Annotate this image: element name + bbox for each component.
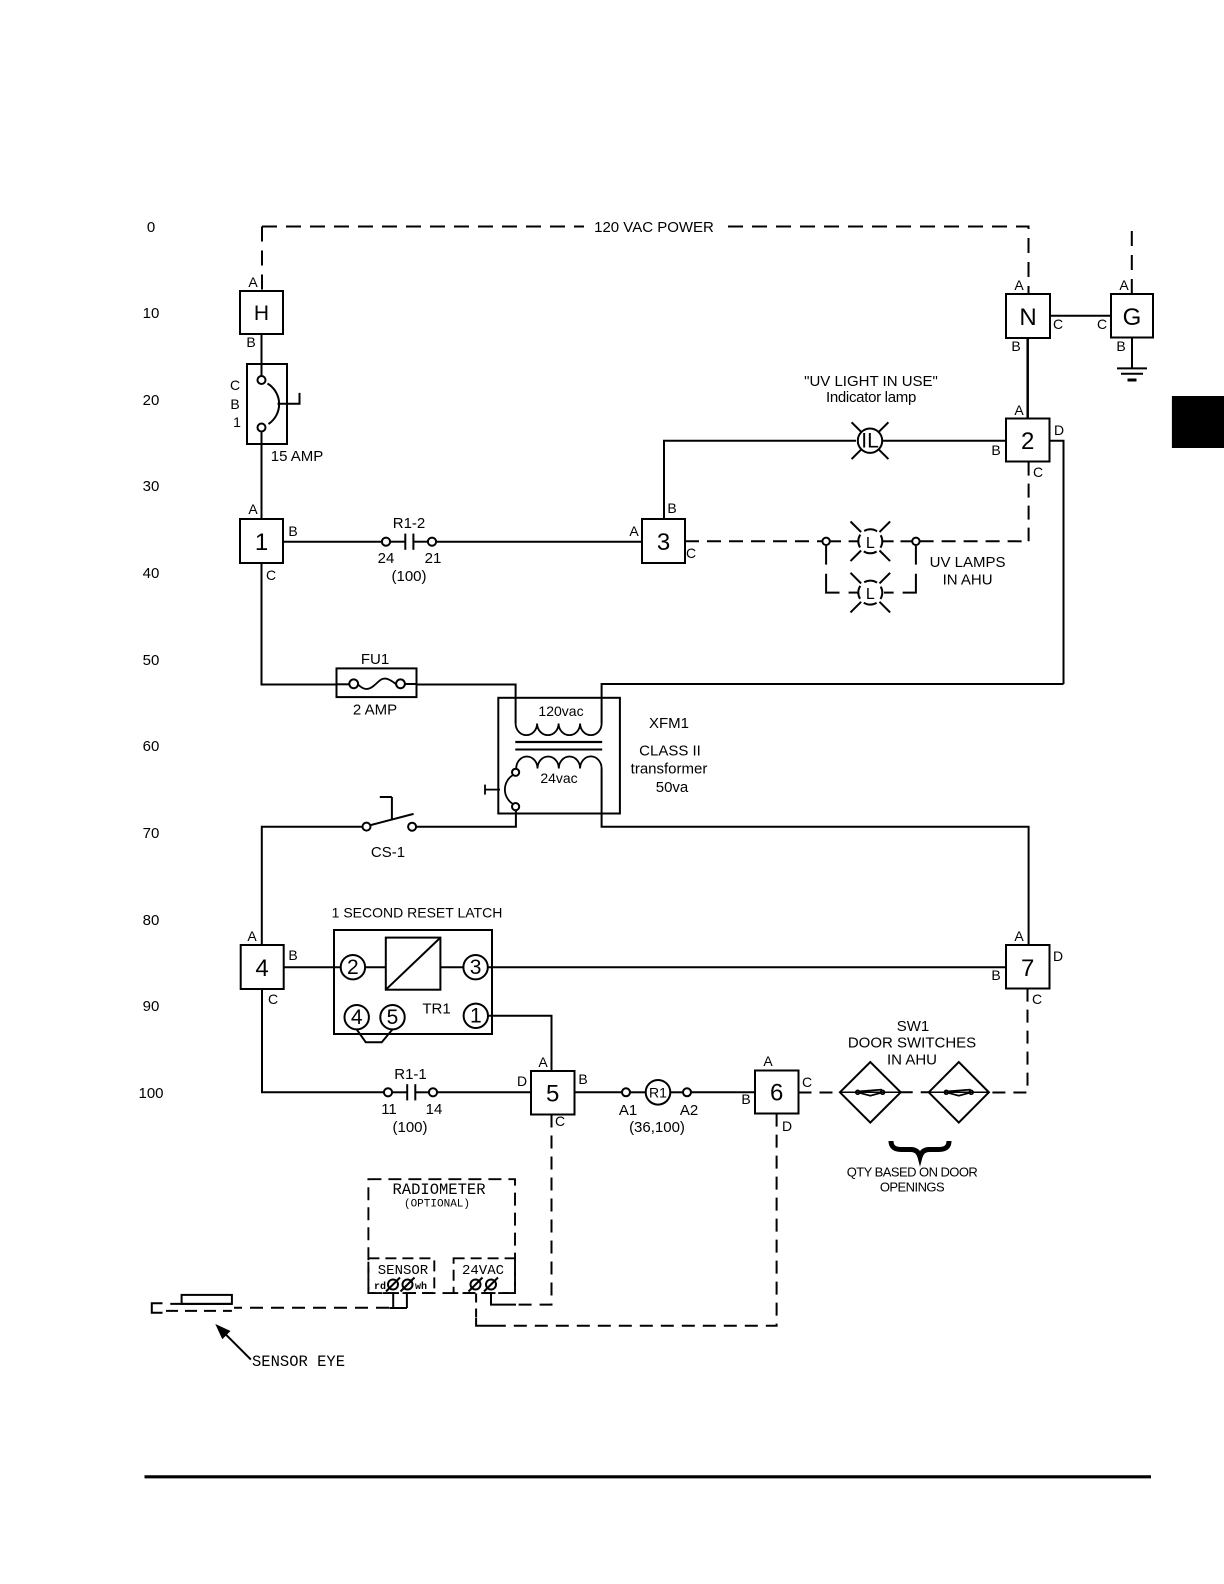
svg-text:IN AHU: IN AHU bbox=[887, 1052, 937, 1069]
svg-text:4: 4 bbox=[351, 1006, 363, 1029]
wire IL to box 2 bbox=[882, 440, 1006, 442]
wire secondary left lead down to CS-1 row bbox=[417, 810, 516, 827]
svg-text:IL: IL bbox=[861, 430, 879, 453]
svg-text:N: N bbox=[1019, 304, 1036, 331]
svg-text:TR1: TR1 bbox=[422, 1001, 450, 1018]
node sensor terminal screws bbox=[386, 1278, 415, 1292]
svg-text:A: A bbox=[1119, 277, 1129, 293]
svg-text:C: C bbox=[1053, 316, 1063, 332]
svg-text:D: D bbox=[782, 1118, 792, 1134]
wire box5 C solid elbow to 24vac terminal bbox=[491, 1294, 516, 1305]
wire box6 C dashed to door switch bbox=[799, 1092, 840, 1094]
svg-text:C: C bbox=[230, 377, 240, 393]
svg-text:QTY BASED ON DOOR: QTY BASED ON DOOR bbox=[847, 1165, 978, 1180]
ground symbol bbox=[1117, 368, 1147, 380]
svg-text:B: B bbox=[991, 442, 1000, 458]
svg-text:C: C bbox=[686, 545, 696, 561]
wire pin2 to square bbox=[365, 966, 386, 968]
relay coil R1 bbox=[622, 1080, 691, 1105]
wire dashed stub above G bbox=[1131, 229, 1133, 294]
svg-text:3: 3 bbox=[657, 529, 670, 556]
connector G bbox=[1111, 294, 1153, 338]
svg-text:B: B bbox=[1116, 338, 1125, 354]
svg-text:A: A bbox=[1014, 277, 1024, 293]
lamp L lower UV lamp (dashed) bbox=[851, 573, 891, 613]
svg-text:"UV LIGHT IN USE": "UV LIGHT IN USE" bbox=[804, 373, 938, 390]
svg-text:3: 3 bbox=[470, 956, 482, 979]
svg-text:C: C bbox=[1032, 991, 1042, 1007]
circuit breaker CB1 bbox=[247, 364, 300, 444]
wire N to G bbox=[1050, 315, 1111, 317]
svg-text:D: D bbox=[517, 1073, 527, 1089]
svg-text:A: A bbox=[248, 274, 258, 290]
node XFM1 label bbox=[631, 715, 708, 796]
connector 4 bbox=[241, 945, 284, 989]
node SENSOR terminal strip bbox=[368, 1258, 434, 1293]
lamp L upper UV lamp (dashed) bbox=[830, 522, 912, 562]
wire box5 C dashed drop bbox=[516, 1115, 552, 1305]
node latch pin 5 bbox=[380, 1005, 404, 1029]
wire box4 B to pin2 bbox=[284, 966, 341, 968]
svg-text:70: 70 bbox=[143, 825, 160, 842]
node latch pin 3 bbox=[463, 955, 487, 979]
radiometer outer dashed box bbox=[368, 1179, 515, 1293]
connector 6 bbox=[755, 1071, 799, 1114]
wire door switch to box7 C dashed bbox=[989, 989, 1028, 1093]
svg-text:5: 5 bbox=[387, 1006, 399, 1029]
node 24VAC terminal strip bbox=[454, 1258, 515, 1293]
node lamp terminal right bbox=[912, 538, 919, 545]
svg-text:20: 20 bbox=[143, 392, 160, 409]
svg-text:B: B bbox=[578, 1071, 587, 1087]
wire 120 VAC POWER top dashed rail bbox=[262, 227, 1029, 295]
svg-text:XFM1: XFM1 bbox=[649, 715, 689, 732]
wire box6 D solid elbow to 24vac terminal bbox=[476, 1318, 497, 1326]
svg-text:120 VAC POWER: 120 VAC POWER bbox=[594, 219, 714, 236]
svg-text:(OPTIONAL): (OPTIONAL) bbox=[404, 1199, 470, 1211]
svg-text:CS-1: CS-1 bbox=[371, 844, 405, 861]
wire CB1 to box 1 bbox=[261, 432, 263, 520]
svg-text:11: 11 bbox=[381, 1101, 397, 1118]
connector H bbox=[240, 291, 283, 334]
node 24vac terminal screws bbox=[469, 1278, 499, 1292]
wire box2 D to transformer primary right bbox=[1050, 441, 1064, 684]
wire lamp branch right drop bbox=[884, 546, 916, 593]
svg-text:A1: A1 bbox=[619, 1102, 637, 1119]
svg-text:(100): (100) bbox=[391, 568, 426, 585]
svg-text:B: B bbox=[288, 947, 297, 963]
svg-text:2 AMP: 2 AMP bbox=[353, 702, 397, 719]
svg-text:G: G bbox=[1123, 304, 1142, 331]
node UV LIGHT IN USE label bbox=[804, 373, 938, 406]
svg-text:IN AHU: IN AHU bbox=[943, 572, 993, 589]
wire CS-1 to left rail down to box4 bbox=[262, 827, 363, 945]
svg-text:6: 6 bbox=[770, 1080, 783, 1107]
svg-text:OPENINGS: OPENINGS bbox=[880, 1180, 945, 1195]
svg-text:B: B bbox=[246, 334, 255, 350]
node CB1 label bbox=[230, 377, 241, 430]
svg-text:L: L bbox=[866, 586, 875, 603]
svg-text:(36,100): (36,100) bbox=[629, 1119, 685, 1136]
svg-text:(100): (100) bbox=[392, 1119, 427, 1136]
svg-text:C: C bbox=[1097, 316, 1107, 332]
contact R1-2 bbox=[382, 534, 436, 550]
svg-text:A: A bbox=[1014, 928, 1024, 944]
svg-text:50va: 50va bbox=[656, 779, 689, 796]
switch SW1 door switch 2 bbox=[929, 1062, 989, 1123]
svg-text:10: 10 bbox=[143, 305, 160, 322]
node switch contact dots bbox=[881, 1090, 885, 1094]
svg-text:30: 30 bbox=[143, 478, 160, 495]
svg-text:rd: rd bbox=[374, 1281, 386, 1293]
wire box5 B to relay coil R1 bbox=[575, 1091, 623, 1093]
svg-text:60: 60 bbox=[143, 738, 160, 755]
node brace bbox=[891, 1141, 949, 1157]
svg-text:4: 4 bbox=[255, 955, 268, 982]
svg-text:50: 50 bbox=[143, 652, 160, 669]
svg-text:B: B bbox=[667, 500, 676, 516]
connector secondary plug bbox=[485, 769, 519, 811]
connector 2 bbox=[1006, 419, 1050, 462]
switch SW1 door switch 1 bbox=[840, 1062, 901, 1123]
wire fuse to transformer primary bbox=[417, 685, 516, 724]
wire G to ground bbox=[1131, 338, 1133, 369]
wire sensor connector bbox=[389, 1293, 407, 1308]
svg-text:FU1: FU1 bbox=[361, 651, 389, 668]
svg-text:SENSOR EYE: SENSOR EYE bbox=[252, 1353, 345, 1371]
svg-text:1: 1 bbox=[233, 414, 241, 430]
wire pin1 to box5 A bbox=[488, 1016, 552, 1071]
svg-text:24vac: 24vac bbox=[540, 770, 577, 786]
svg-text:5: 5 bbox=[546, 1081, 559, 1108]
svg-text:SENSOR: SENSOR bbox=[378, 1263, 429, 1279]
svg-text:7: 7 bbox=[1021, 955, 1034, 982]
svg-text:wh: wh bbox=[415, 1281, 427, 1293]
svg-text:A: A bbox=[1014, 402, 1024, 418]
node UV LAMPS IN AHU label bbox=[930, 554, 1006, 589]
svg-text:1: 1 bbox=[255, 529, 268, 556]
wire H to CB1 bbox=[261, 334, 263, 376]
node SW1 label bbox=[848, 1018, 976, 1069]
svg-text:D: D bbox=[1053, 948, 1063, 964]
svg-text:R1: R1 bbox=[649, 1084, 667, 1100]
wire pin 4-5 jumper bbox=[357, 1029, 393, 1042]
svg-text:C: C bbox=[802, 1074, 812, 1090]
svg-text:R1-1: R1-1 bbox=[394, 1066, 427, 1083]
svg-text:120vac: 120vac bbox=[538, 703, 583, 719]
sensor eye bbox=[152, 1295, 232, 1313]
wire secondary right lead to right rail bbox=[602, 769, 1029, 946]
connector 7 bbox=[1006, 945, 1050, 989]
connector 1 bbox=[240, 519, 283, 563]
lamp IL indicator bbox=[852, 422, 889, 459]
connector 5 bbox=[531, 1071, 575, 1115]
svg-text:A: A bbox=[763, 1053, 773, 1069]
wire box4 C down to row 100 bbox=[262, 989, 384, 1092]
svg-text:24: 24 bbox=[378, 550, 395, 567]
wire box3 C dashed to lamp terminal bbox=[685, 540, 822, 542]
connector 3 bbox=[642, 519, 685, 563]
fuse FU1 bbox=[337, 668, 417, 697]
svg-text:A: A bbox=[629, 523, 639, 539]
svg-text:90: 90 bbox=[143, 998, 160, 1015]
wire between door switches bbox=[901, 1091, 929, 1093]
svg-text:C: C bbox=[266, 567, 276, 583]
svg-text:21: 21 bbox=[425, 550, 442, 567]
node latch pin 1 bbox=[464, 1004, 488, 1028]
node latch pin 2 bbox=[341, 955, 365, 979]
wire box2 C dashed down to UV lamp row bbox=[1028, 462, 1030, 542]
wire R1-1 to box5 D bbox=[437, 1091, 531, 1093]
svg-text:2: 2 bbox=[347, 956, 359, 979]
svg-text:RADIOMETER: RADIOMETER bbox=[392, 1181, 485, 1199]
wire N to box2 A bbox=[1026, 338, 1029, 419]
svg-text:C: C bbox=[1033, 464, 1043, 480]
svg-text:D: D bbox=[1054, 422, 1064, 438]
node QTY BASED ON DOOR OPENINGS label bbox=[847, 1165, 978, 1195]
node lamp terminal left bbox=[822, 538, 829, 545]
wire pin3 to box7 B bbox=[488, 966, 1006, 968]
svg-text:L: L bbox=[866, 535, 875, 552]
connector N bbox=[1006, 294, 1050, 338]
svg-text:1 SECOND RESET LATCH: 1 SECOND RESET LATCH bbox=[332, 905, 503, 921]
svg-text:A: A bbox=[538, 1054, 548, 1070]
wire lamp branch left drop bbox=[826, 546, 858, 593]
wire coil to box6 B bbox=[691, 1091, 755, 1093]
contact R1-1 bbox=[384, 1084, 437, 1100]
wire sensor eye dashed bbox=[234, 1307, 389, 1309]
wire box3 B up to indicator lamp row bbox=[664, 441, 856, 519]
svg-text:A2: A2 bbox=[680, 1102, 698, 1119]
svg-text:A: A bbox=[247, 928, 257, 944]
svg-text:0: 0 bbox=[147, 219, 155, 236]
svg-text:100: 100 bbox=[138, 1085, 163, 1102]
node latch pin 4 bbox=[345, 1005, 369, 1029]
wire square to pin3 bbox=[440, 966, 463, 968]
svg-text:24VAC: 24VAC bbox=[462, 1263, 504, 1279]
footer rule bbox=[145, 1475, 1152, 1478]
switch CS-1 bbox=[363, 797, 417, 831]
svg-text:40: 40 bbox=[143, 565, 160, 582]
svg-text:R1-2: R1-2 bbox=[393, 515, 426, 532]
svg-text:B: B bbox=[991, 967, 1000, 983]
primary coil 120vac bbox=[516, 724, 602, 736]
svg-text:SW1: SW1 bbox=[897, 1018, 930, 1035]
node black tab marker bbox=[1172, 396, 1224, 448]
svg-text:14: 14 bbox=[426, 1101, 443, 1118]
wire R1-2 to box 3 bbox=[436, 541, 642, 543]
secondary coil 24vac bbox=[516, 756, 601, 768]
transformer XFM1 bbox=[498, 698, 620, 814]
wire transformer primary right to box2 D bbox=[602, 684, 1064, 724]
svg-text:UV LAMPS: UV LAMPS bbox=[930, 554, 1006, 571]
core lines bbox=[515, 741, 602, 743]
svg-text:15 AMP: 15 AMP bbox=[271, 448, 324, 465]
wire 24vac left terminal elbow bbox=[475, 1294, 477, 1319]
svg-text:2: 2 bbox=[1021, 428, 1034, 455]
node line numbers column bbox=[138, 219, 163, 1102]
svg-text:Indicator lamp: Indicator lamp bbox=[826, 389, 916, 406]
svg-text:C: C bbox=[555, 1113, 565, 1129]
svg-text:1: 1 bbox=[470, 1005, 482, 1028]
svg-text:80: 80 bbox=[143, 912, 160, 929]
svg-text:B: B bbox=[1011, 338, 1020, 354]
wire lamp terminal to box2 C net bbox=[920, 540, 1029, 542]
svg-text:H: H bbox=[254, 302, 269, 325]
svg-text:B: B bbox=[288, 523, 297, 539]
wire box1 C down to fuse row bbox=[262, 563, 337, 685]
svg-text:A: A bbox=[248, 501, 258, 517]
svg-text:CLASS II: CLASS II bbox=[639, 743, 701, 760]
svg-text:transformer: transformer bbox=[631, 761, 708, 778]
latch TR1 module box bbox=[334, 930, 492, 1034]
svg-text:C: C bbox=[268, 991, 278, 1007]
svg-text:DOOR SWITCHES: DOOR SWITCHES bbox=[848, 1035, 976, 1052]
svg-text:B: B bbox=[741, 1091, 750, 1107]
wire box1 B to contact R1-2 bbox=[283, 541, 382, 543]
wire box6 D dashed drop bbox=[497, 1114, 777, 1326]
node sensor eye arrow bbox=[215, 1324, 251, 1360]
svg-text:B: B bbox=[230, 396, 239, 412]
